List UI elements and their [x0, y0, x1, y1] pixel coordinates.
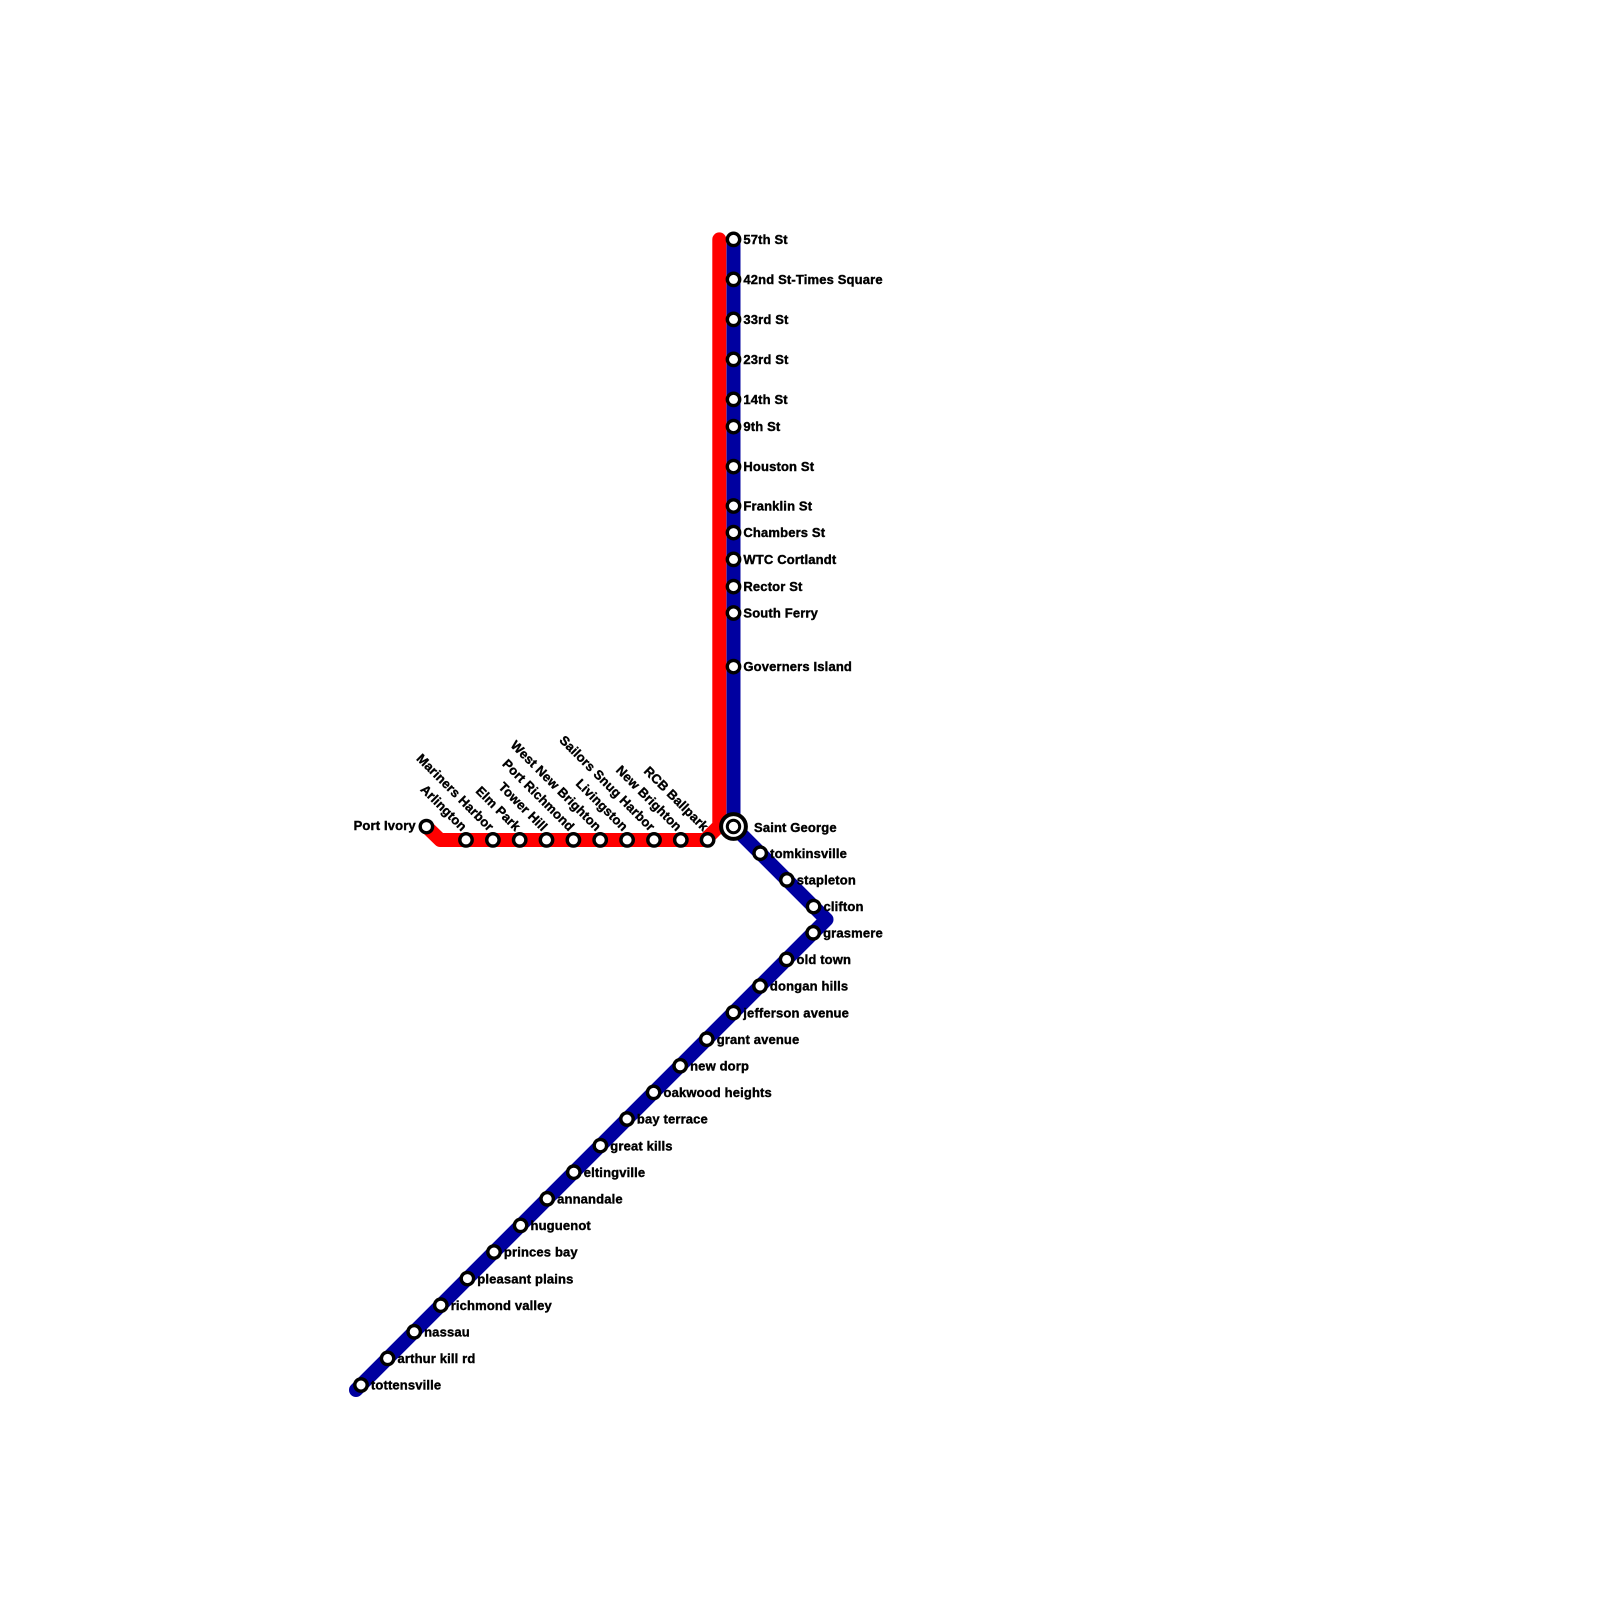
station old town [780, 953, 792, 965]
station West New Brighton [594, 834, 606, 846]
svg-text:old town: old town [797, 952, 852, 967]
svg-text:Houston St: Houston St [743, 459, 814, 474]
station Livingston [621, 834, 633, 846]
station 9th St [727, 420, 739, 432]
station princes bay [488, 1246, 500, 1258]
station richmond valley [435, 1299, 447, 1311]
svg-text:42nd St-Times Square: 42nd St-Times Square [743, 272, 882, 287]
station 33rd St [727, 313, 739, 325]
station Tower Hill [540, 834, 552, 846]
station jefferson avenue [727, 1006, 739, 1018]
station pleasant plains [461, 1272, 473, 1284]
station New Brighton [675, 834, 687, 846]
station Rector St [727, 580, 739, 592]
svg-text:eltingville: eltingville [584, 1165, 646, 1180]
svg-text:WTC Cortlandt: WTC Cortlandt [743, 552, 836, 567]
svg-text:14th St: 14th St [743, 392, 788, 407]
station arthur kill rd [381, 1352, 393, 1364]
station 42nd St-Times Square [727, 273, 739, 285]
svg-text:new dorp: new dorp [690, 1059, 749, 1074]
station Arlington [460, 834, 472, 846]
svg-text:grasmere: grasmere [823, 926, 883, 941]
station Franklin St [727, 500, 739, 512]
svg-text:great kills: great kills [610, 1138, 672, 1153]
station Port Ivory [420, 820, 432, 832]
svg-text:bay terrace: bay terrace [637, 1112, 708, 1127]
station clifton [807, 900, 819, 912]
svg-text:nassau: nassau [424, 1325, 470, 1340]
station RCB Ballpark [701, 834, 713, 846]
station Sailors Snug Harbor [648, 834, 660, 846]
station oakwood heights [647, 1086, 659, 1098]
station eltingville [568, 1166, 580, 1178]
interchange station Saint George [721, 814, 746, 839]
station tottensville [355, 1379, 367, 1391]
svg-text:huguenot: huguenot [531, 1218, 592, 1233]
station annandale [541, 1193, 553, 1205]
svg-text:clifton: clifton [824, 899, 864, 914]
station bay terrace [621, 1113, 633, 1125]
station new dorp [674, 1060, 686, 1072]
station 23rd St [727, 353, 739, 365]
svg-text:stapleton: stapleton [797, 873, 856, 888]
svg-text:richmond valley: richmond valley [451, 1298, 553, 1313]
station WTC Cortlandt [727, 553, 739, 565]
svg-text:23rd St: 23rd St [743, 352, 789, 367]
red line (Port Ivory branch and Manhattan trunk) [426, 239, 719, 840]
station dongan hills [754, 980, 766, 992]
svg-text:annandale: annandale [557, 1192, 623, 1207]
svg-text:tottensville: tottensville [371, 1378, 441, 1393]
svg-text:oakwood heights: oakwood heights [664, 1085, 772, 1100]
svg-text:Saint George: Saint George [754, 820, 837, 835]
station great kills [594, 1139, 606, 1151]
station tomkinsville [754, 847, 766, 859]
station Port Richmond [567, 834, 579, 846]
station stapleton [781, 874, 793, 886]
station Mariners Harbor [487, 834, 499, 846]
svg-text:princes bay: princes bay [504, 1245, 579, 1260]
station 14th St [727, 393, 739, 405]
station 57th St [727, 233, 739, 245]
station nassau [408, 1326, 420, 1338]
svg-text:Governers Island: Governers Island [743, 659, 852, 674]
station South Ferry [727, 607, 739, 619]
svg-text:tomkinsville: tomkinsville [770, 846, 847, 861]
svg-text:Chambers St: Chambers St [743, 525, 825, 540]
svg-text:9th St: 9th St [743, 419, 781, 434]
station Houston St [727, 460, 739, 472]
station Chambers St [727, 526, 739, 538]
svg-text:57th St: 57th St [743, 232, 788, 247]
station grasmere [807, 927, 819, 939]
station Elm Park [514, 834, 526, 846]
svg-text:grant avenue: grant avenue [717, 1032, 800, 1047]
svg-text:jefferson avenue: jefferson avenue [742, 1005, 849, 1020]
svg-text:Rector St: Rector St [743, 579, 803, 594]
svg-text:arthur kill rd: arthur kill rd [398, 1351, 476, 1366]
station grant avenue [701, 1033, 713, 1045]
svg-text:pleasant plains: pleasant plains [477, 1271, 573, 1286]
blue line (trunk and SIR south branch) [356, 239, 827, 1390]
svg-text:33rd St: 33rd St [743, 312, 789, 327]
station huguenot [514, 1219, 526, 1231]
station Governers Island [727, 660, 739, 672]
svg-text:South Ferry: South Ferry [743, 606, 818, 621]
svg-text:Port Ivory: Port Ivory [354, 818, 417, 833]
svg-text:Franklin St: Franklin St [743, 499, 812, 514]
svg-text:dongan hills: dongan hills [770, 979, 848, 994]
